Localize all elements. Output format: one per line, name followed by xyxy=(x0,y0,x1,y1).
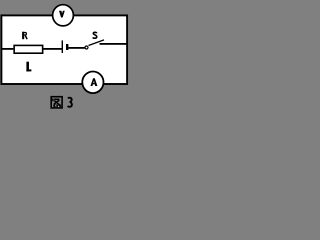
switch pivot xyxy=(85,46,88,49)
ammeter A xyxy=(82,72,103,94)
resistor R xyxy=(14,45,43,53)
letter A xyxy=(90,78,97,86)
label S xyxy=(93,32,97,38)
battery short plate xyxy=(66,44,68,50)
wire resistor to battery xyxy=(43,48,61,50)
wire battery to switch xyxy=(68,47,84,49)
circuit loop (white box) xyxy=(1,15,127,84)
caption digit 3 xyxy=(68,98,72,107)
background xyxy=(0,0,130,115)
wire switch to right border xyxy=(100,43,128,45)
label R xyxy=(22,32,27,40)
switch lever S xyxy=(89,40,105,46)
letter V xyxy=(59,11,65,18)
voltmeter V xyxy=(53,5,74,26)
label L xyxy=(26,62,31,72)
battery long plate xyxy=(62,40,63,53)
caption glyph tu (figure) xyxy=(51,97,62,108)
wire left segment to resistor xyxy=(1,48,14,50)
